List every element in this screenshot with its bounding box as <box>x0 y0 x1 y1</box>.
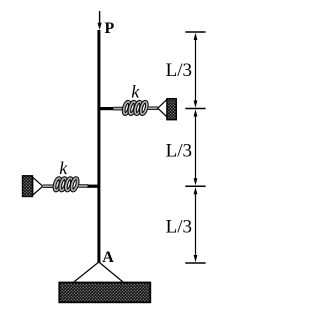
spring k upper (coil) <box>122 101 148 115</box>
spring k lower (rod right) <box>79 184 89 187</box>
svg-text:k: k <box>131 82 140 102</box>
dimension arrow segment 1 (top L/3) <box>194 33 198 108</box>
svg-text:A: A <box>102 249 114 266</box>
svg-text:L/3: L/3 <box>166 60 192 81</box>
pin support legs at A <box>72 262 125 284</box>
lower spring anchor triangle <box>33 177 43 195</box>
dimension arrow segment 3 (bottom L/3) <box>194 187 198 262</box>
dimension tick top <box>185 31 205 33</box>
dimension arrow segment 2 (middle L/3) <box>194 109 198 185</box>
spring k lower (rod left) <box>43 184 55 187</box>
column (vertical bar) <box>97 30 100 263</box>
dimension tick at upper spring <box>185 108 205 110</box>
svg-text:L/3: L/3 <box>166 141 192 162</box>
spring k upper (rod left) <box>113 107 124 111</box>
upper spring anchor triangle <box>158 99 167 117</box>
dimension tick at lower spring <box>185 185 205 187</box>
svg-text:P: P <box>105 20 115 37</box>
dimension tick bottom <box>185 262 205 264</box>
spring k upper (rod right) <box>148 106 158 109</box>
ground block (hatched) <box>59 283 150 303</box>
lower-left wall block (hatched) <box>23 176 33 197</box>
svg-text:L/3: L/3 <box>166 217 192 238</box>
wire stub column to upper spring <box>100 107 114 110</box>
spring k lower (coil) <box>53 177 79 191</box>
wire stub lower spring to column <box>88 185 98 188</box>
svg-text:k: k <box>59 158 68 178</box>
force arrow P <box>98 11 102 30</box>
upper wall block (hatched) <box>167 99 176 120</box>
